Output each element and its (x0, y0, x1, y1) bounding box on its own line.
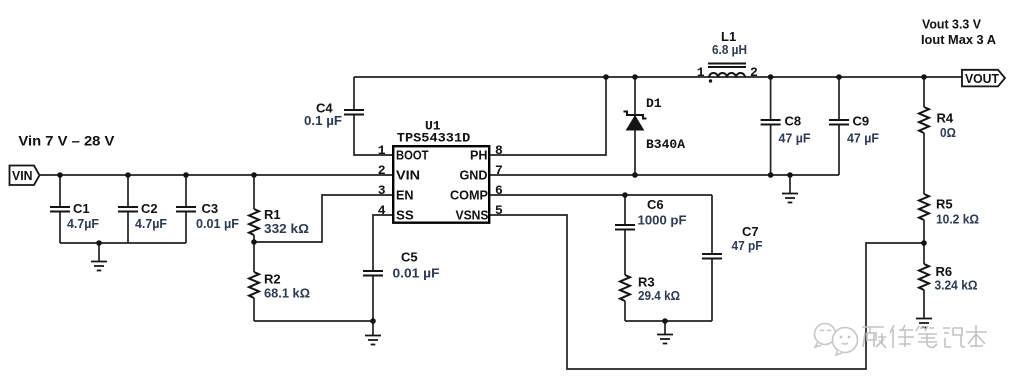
node PH top junction (603, 74, 609, 80)
svg-text:C9: C9 (853, 114, 870, 129)
svg-text:1: 1 (378, 143, 386, 158)
node D1 top junction (632, 74, 638, 80)
svg-text:C1: C1 (73, 201, 90, 216)
svg-text:VOUT: VOUT (965, 71, 999, 86)
svg-text:C8: C8 (785, 114, 802, 129)
ground R6 (916, 319, 932, 328)
svg-text:TPS54331D: TPS54331D (397, 131, 471, 146)
svg-text:R5: R5 (936, 197, 953, 212)
node C6 top junction (622, 192, 628, 198)
svg-text:7: 7 (495, 163, 503, 178)
svg-text:4.7µF: 4.7µF (67, 216, 99, 231)
svg-text:3.24 kΩ: 3.24 kΩ (935, 278, 978, 293)
svg-text:5: 5 (495, 203, 503, 218)
svg-text:6.8 µH: 6.8 µH (712, 42, 747, 57)
node R4 top junction (921, 74, 927, 80)
wire PH riser (490, 77, 606, 155)
wire COMP net (490, 194, 712, 196)
node C8 top junction (768, 74, 774, 80)
capacitor C9 (829, 77, 879, 175)
svg-text:0Ω: 0Ω (940, 125, 956, 140)
svg-text:4: 4 (378, 203, 386, 218)
svg-text:BOOT: BOOT (396, 148, 429, 163)
node D1 bottom junction (632, 172, 638, 178)
ground C5/R2 (365, 321, 381, 345)
wire top boot rail (354, 76, 745, 78)
wire GND rail pin7 (490, 174, 839, 176)
capacitor C1 (50, 175, 99, 243)
wire input bottom rail (60, 242, 186, 244)
svg-text:8: 8 (495, 143, 503, 158)
node gnd rail stem junction (787, 172, 793, 178)
resistor R1 (249, 175, 309, 242)
wire output rail (745, 76, 962, 78)
capacitor C2 (118, 175, 167, 243)
svg-text:0.01 µF: 0.01 µF (393, 266, 440, 281)
node C9 top junction (836, 74, 842, 80)
svg-text:SS: SS (396, 208, 414, 223)
svg-text:B340A: B340A (646, 137, 685, 152)
wire EN to R1/R2 junction (254, 195, 393, 242)
node C5 gnd junction (370, 318, 376, 324)
svg-text:C6: C6 (647, 197, 664, 212)
watermark logo (815, 324, 858, 356)
svg-text:C3: C3 (202, 201, 219, 216)
svg-text:0.1 µF: 0.1 µF (304, 113, 342, 128)
svg-text:4.7µF: 4.7µF (135, 216, 167, 231)
resistor R5 (919, 194, 979, 243)
wire comp bottom rail (625, 320, 712, 322)
svg-text:VIN: VIN (396, 168, 420, 183)
svg-text:R2: R2 (264, 272, 281, 287)
svg-text:D1: D1 (646, 96, 662, 111)
wire VSNS feedback (490, 215, 924, 369)
svg-text:332 kΩ: 332 kΩ (264, 221, 309, 236)
svg-text:1000 pF: 1000 pF (638, 213, 687, 228)
svg-text:COMP: COMP (450, 188, 488, 203)
node VIN rail junctions (57, 172, 63, 178)
capacitor C4 (304, 77, 393, 155)
svg-text:2: 2 (378, 163, 386, 178)
node VIN input tag (10, 166, 40, 186)
capacitor C7 (702, 195, 763, 321)
svg-text:VIN: VIN (12, 168, 33, 183)
resistor R2 (249, 242, 310, 321)
svg-text:1: 1 (697, 65, 705, 80)
svg-text:68.1 kΩ: 68.1 kΩ (264, 286, 310, 301)
svg-text:EN: EN (396, 188, 414, 203)
svg-text:C2: C2 (141, 201, 158, 216)
wire R2 bottom rail to C5 (254, 320, 373, 322)
wire VIN rail (40, 174, 394, 176)
node input gnd junction (96, 240, 102, 246)
svg-text:R4: R4 (937, 111, 954, 126)
svg-text:0.01 µF: 0.01 µF (196, 216, 239, 231)
svg-text:47 µF: 47 µF (847, 131, 879, 146)
capacitor C6 (615, 195, 687, 275)
resistor R6 (919, 243, 978, 318)
capacitor C3 (176, 175, 239, 243)
node comp gnd junction (662, 318, 668, 324)
svg-text:Vin 7 V – 28 V: Vin 7 V – 28 V (18, 133, 115, 149)
capacitor C8 (761, 77, 811, 175)
node R5/R6 feedback junction (921, 240, 927, 246)
op-amp U1 TPS54331D box (393, 119, 489, 223)
ground comp network (657, 321, 673, 344)
watermark text 硬件笔记本 (approximated strokes) (862, 325, 987, 348)
resistor R4 (919, 77, 956, 194)
svg-text:3: 3 (378, 183, 386, 198)
svg-text:GND: GND (460, 168, 488, 183)
svg-text:PH: PH (470, 148, 488, 163)
node VOUT output tag (962, 70, 1005, 87)
svg-text:6: 6 (495, 183, 503, 198)
node C8 bottom junction (768, 172, 774, 178)
svg-text:C7: C7 (742, 224, 759, 239)
svg-text:47 pF: 47 pF (732, 238, 763, 253)
svg-text:10.2 kΩ: 10.2 kΩ (936, 212, 979, 227)
svg-text:R1: R1 (264, 207, 281, 222)
svg-text:VSNS: VSNS (456, 208, 489, 223)
diode D1 B340A (624, 77, 686, 175)
resistor R3 (620, 275, 680, 322)
svg-text:Iout Max 3 A: Iout Max 3 A (921, 32, 997, 47)
node R1/R2 junction (251, 239, 257, 245)
inductor L1 (697, 29, 758, 83)
capacitor C5 (363, 215, 440, 321)
ground mid rail (782, 175, 798, 203)
ground input caps (91, 243, 107, 271)
svg-text:C5: C5 (401, 250, 418, 265)
svg-text:Vout 3.3 V: Vout 3.3 V (922, 17, 981, 32)
svg-text:47 µF: 47 µF (779, 131, 811, 146)
svg-text:29.4 kΩ: 29.4 kΩ (638, 288, 680, 303)
